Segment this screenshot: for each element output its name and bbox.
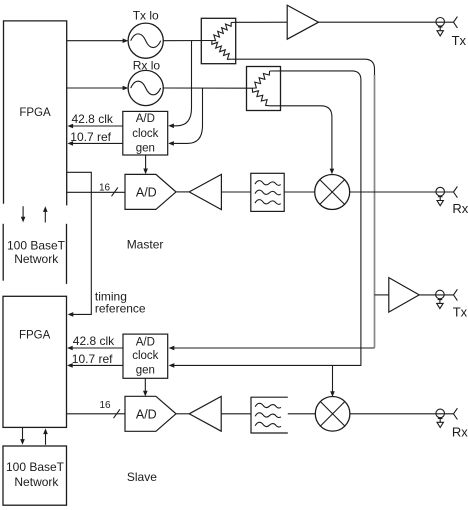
wire F1 to mixer M1 [284,191,315,193]
wire S2 bottom output to master mixer M1 [270,106,332,169]
splitter S1 box (Tx lo splitter) [201,18,235,63]
svg-text:Network: Network [14,252,59,266]
svg-text:gen: gen [136,365,155,377]
oscillator Tx lo [128,23,163,58]
wire node B: tap to A/D clock gen input 2 (curved arrow) [174,88,203,143]
svg-text:FPGA: FPGA [19,329,51,341]
A/D clock gen U5 (slave) box [123,334,168,378]
svg-text:reference: reference [95,302,146,316]
svg-text:Tx: Tx [453,305,468,320]
svg-text:16: 16 [99,400,111,411]
svg-text:FPGA: FPGA [19,107,51,119]
svg-text:A/D: A/D [136,336,155,348]
svg-text:clock: clock [132,128,158,140]
timing reference tap box on FPGA [67,172,92,314]
wire clock gen to FPGA: 42.8 clk [72,125,122,127]
wire into slave A/D clock gen input 1 [174,347,375,349]
arrow FPGA to 100BaseT (down) [22,206,24,217]
wire FPGA to A/D 16-bit bus (slave) [67,413,126,415]
svg-text:16: 16 [99,182,111,193]
wire S1 bottom output going right [231,59,374,76]
wire F2 to mixer M2 [288,413,316,415]
A/D converter U6 (slave) [125,396,176,431]
amplifier A1 (master Tx) [287,5,318,39]
svg-text:Network: Network [14,475,59,489]
svg-text:gen: gen [136,143,155,155]
amplifier A4 (slave Tx) [389,278,419,313]
wire clock gen to FPGA: 10.7 ref (slave) [72,364,123,366]
svg-text:10.7 ref: 10.7 ref [72,352,113,366]
FPGA U4 (slave) box [3,296,67,427]
svg-text:A/D: A/D [136,408,157,422]
wire A4 to Tx antenna (slave) [419,294,453,296]
wire clock gen to A/D converter (slave, arrow down) [144,378,146,391]
svg-text:100 BaseT: 100 BaseT [6,460,65,474]
filter F2 (slave bandpass, open right) [251,397,288,433]
splitter S2 box (Rx lo splitter) [247,67,281,111]
resistor R1b (S1 lower zigzag) [212,41,231,60]
svg-text:A/D: A/D [136,113,155,125]
bus slash mark (slave) [114,409,120,418]
amplifier A3 (slave IF, points left) [189,396,221,431]
wire branch arrow into slave mixer M2 [332,365,334,391]
wire M2 to Rx antenna (slave) [350,413,454,415]
wire FPGA to Tx lo [67,40,124,42]
amplifier A2 (master IF, points left) [189,174,221,209]
wire FPGA to A/D 16-bit bus [67,191,125,193]
svg-text:10.7 ref: 10.7 ref [70,130,111,144]
arrow 100BaseT to FPGA (up) [44,211,46,222]
antenna Tx (slave): circle, fork, drop arrow [436,290,445,299]
resistor R2a (S2 upper zigzag) [252,71,269,88]
antenna Rx (slave): circle, fork, drop arrow [436,409,445,418]
antenna Tx (master): circle, fork, drop arrow [436,18,445,27]
wire clock gen to FPGA: 10.7 ref [72,142,122,144]
svg-text:Master: Master [127,237,164,251]
svg-text:Rx: Rx [452,424,468,439]
wire clock gen to FPGA: 42.8 clk (slave) [72,347,123,349]
filter F1 (master bandpass) [251,173,284,211]
100 BaseT Network box (master, side lines only) [2,224,4,281]
svg-text:Tx lo: Tx lo [133,9,159,23]
antenna Rx (master): circle, fork, drop arrow [436,187,445,196]
wire S1 top output to amplifier A1 [231,21,287,23]
wire A/D to amp A2 [176,191,189,193]
mixer M2 (slave) [315,397,350,432]
A/D converter U3 (master) [125,174,176,209]
svg-text:Tx: Tx [452,33,467,48]
wire A3 to filter F2 [221,413,251,415]
svg-text:100 BaseT: 100 BaseT [7,238,66,252]
svg-text:A/D: A/D [136,186,157,200]
arrow 100BaseT to FPGA (slave, up) [45,434,47,445]
resistor R1a (S1 upper zigzag) [212,23,231,41]
mixer M1 (master) [315,175,350,210]
svg-text:clock: clock [132,350,158,362]
wire node A: tap to A/D clock gen input 1 (curved arrow) [174,41,192,126]
wire S2 top output down to slave mixer/clockgen [174,71,361,366]
A/D clock gen U2 (master) box [123,111,168,155]
wire clock gen to A/D converter (arrow down) [145,155,147,169]
svg-text:Rx: Rx [452,201,468,216]
FPGA U1 (master) box, open bottom [4,21,67,206]
svg-text:Slave: Slave [127,470,157,484]
svg-text:42.8 clk: 42.8 clk [72,112,114,126]
100 BaseT Network box (slave) [3,446,67,505]
wire M1 to Rx antenna [349,191,453,193]
oscillator Rx lo [128,70,163,105]
wire branch to slave Tx amplifier [375,294,389,296]
wire A/D to amp A3 [176,413,189,415]
arrow FPGA to 100BaseT (slave, down) [22,427,24,439]
wire long vertical (gray) down to slave [374,75,376,348]
wire A1 to Tx antenna [319,21,454,23]
svg-text:42.8 clk: 42.8 clk [73,334,115,348]
bus slash mark [112,187,118,196]
resistor R2b (S2 lower zigzag) [252,88,269,106]
wire A2 to filter F1 [221,191,250,193]
wire FPGA to Rx lo [67,87,124,89]
svg-text:Rx lo: Rx lo [133,59,161,73]
wire Tx lo to splitter S1 [163,40,212,42]
wire Rx lo to splitter S2 [163,87,253,89]
